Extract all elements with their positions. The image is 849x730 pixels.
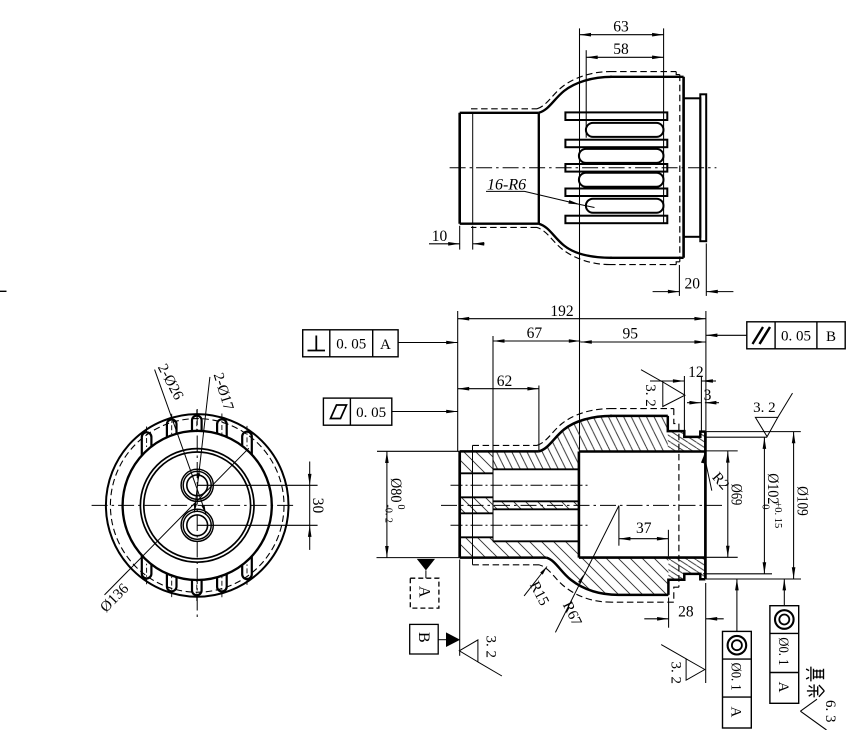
top view: groove land bar 1 — [565, 112, 667, 120]
svg-text:0: 0 — [395, 505, 406, 510]
top view: blank outline dashed left top — [471, 108, 537, 110]
top view: horizontal centerline — [450, 167, 717, 169]
note 其余 characters — [806, 667, 824, 698]
front view: rim slot top 1 — [142, 432, 152, 455]
svg-text:Ø0. 1: Ø0. 1 — [775, 637, 791, 665]
top view: cylinder inner step line at 10mm — [472, 113, 474, 224]
svg-text:37: 37 — [636, 520, 652, 537]
svg-text:B: B — [415, 632, 432, 643]
concentricity frame 2 leader — [783, 579, 785, 606]
svg-text:6. 3: 6. 3 — [822, 700, 838, 723]
top view: cylinder top line — [460, 112, 539, 114]
concentricity frame 1 leader — [736, 579, 738, 632]
dimension Ø102 line — [763, 437, 765, 573]
section: hole counterbore step line (also ext of dim 67) — [492, 336, 494, 541]
section hatch: upper body steep — [493, 416, 668, 469]
svg-text:10: 10 — [432, 228, 448, 245]
dimension Ø80 extension lines — [377, 450, 460, 452]
section: blank outline dashed left bottom — [473, 564, 540, 566]
concentricity frame 1 symbol — [728, 636, 747, 655]
parallelism symbol — [753, 327, 764, 344]
section: bore cavity bottom line — [579, 556, 706, 559]
dimension 30 extension lines — [197, 484, 317, 486]
section: upper step profile — [668, 416, 706, 437]
front view: horizontal centerline — [92, 504, 297, 506]
section hatch: left wall upper band 45deg — [460, 451, 493, 473]
top view: body right face — [682, 77, 685, 258]
dimension Ø80 text with tolerance — [382, 478, 406, 523]
svg-text:+0. 15: +0. 15 — [772, 501, 783, 528]
front view: hub face circle outer — [140, 449, 254, 563]
dimension 63 extension line right — [663, 28, 665, 223]
front view: rim slot top 2 — [167, 420, 177, 438]
dimension 37 line — [619, 538, 669, 540]
concentricity frame 1 datum — [728, 707, 744, 718]
dimension 12 extension lines — [683, 376, 685, 431]
front view: rim slot top 5 — [242, 432, 252, 455]
svg-text:Ø69: Ø69 — [727, 484, 744, 506]
top view: blank outline dashed lower S — [537, 227, 610, 264]
top view: blank outline dashed corner step bottom — [676, 262, 680, 265]
front view: vertical centerline — [196, 409, 198, 619]
top view: groove capsule 3 — [579, 173, 664, 187]
datum B letter — [415, 632, 432, 643]
section hatch: upper flange strip gentle — [668, 431, 706, 451]
svg-text:0. 05: 0. 05 — [781, 328, 811, 344]
svg-text:0: 0 — [760, 504, 771, 509]
top view: cylinder bottom line — [460, 223, 539, 225]
dimension 10 line and arrows — [429, 243, 460, 245]
section: upper hole Ø26 bottom — [493, 500, 579, 502]
svg-text:Ø102: Ø102 — [764, 473, 781, 504]
svg-text:30: 30 — [309, 498, 326, 514]
section: body bottom edge — [619, 594, 669, 597]
svg-text:3. 2: 3. 2 — [483, 636, 499, 659]
top view: end plate rectangle — [700, 94, 706, 241]
svg-text:20: 20 — [685, 276, 701, 293]
datum A letter — [416, 586, 433, 598]
svg-text:0. 05: 0. 05 — [336, 336, 366, 352]
top view: blank outline dashed upper S — [537, 72, 610, 109]
datum extension line below left face — [459, 560, 461, 656]
leader 2-Ø17 line — [194, 377, 210, 513]
front view: upper hole Ø26 inner circle — [183, 471, 211, 499]
section: right face — [704, 432, 707, 580]
datum A stem — [425, 570, 427, 578]
flatness frame box — [323, 398, 391, 425]
front view: rim slot bottom 2 — [167, 574, 177, 592]
flatness leader — [392, 411, 458, 413]
dimension 12 right arrow — [701, 379, 713, 383]
section: blank outline dashed upper S — [537, 409, 610, 446]
dimension 192 extension line left — [457, 311, 459, 451]
svg-text:95: 95 — [622, 326, 638, 343]
top view: blank outline dashed corner step — [676, 72, 680, 75]
dimension 95 line — [580, 341, 706, 343]
dimension 37 extension lines — [618, 506, 620, 546]
top view: groove land bar 4 — [565, 189, 667, 197]
front view: rim slot bottom 4 — [217, 574, 227, 592]
leader R2 — [704, 455, 712, 490]
leader R67 — [555, 506, 619, 633]
dimension 63 extension line left (shared with section cavity wall) — [579, 28, 581, 451]
svg-text:3. 2: 3. 2 — [753, 400, 776, 416]
svg-text:28: 28 — [678, 603, 694, 620]
front view: blank outline dashed circle — [110, 419, 284, 593]
note roughness symbol — [800, 699, 817, 711]
dimension 67 line — [493, 340, 580, 342]
section: blank outline dashed upper corner step — [674, 409, 679, 424]
svg-text:0. 05: 0. 05 — [356, 405, 386, 421]
perpendicularity symbol — [315, 336, 317, 351]
svg-text:A: A — [728, 707, 744, 718]
top view: body top edge — [610, 76, 684, 78]
section: lower hole Ø17 bottom — [460, 536, 493, 538]
dimension 30 line and arrows — [309, 462, 311, 550]
section: blank outline dashed top — [610, 408, 674, 410]
front view: lower hole Ø26 outer circle — [181, 509, 213, 541]
section hatch: web strip between bores 45deg — [493, 501, 579, 509]
section: main centerline — [441, 504, 722, 506]
dimension Ø109 extension lines — [705, 431, 800, 433]
top view: blank outline dashed left bottom — [471, 226, 537, 228]
front view: rim slot top 4 — [217, 419, 227, 437]
top view: groove land bar 2 — [565, 140, 667, 148]
section hatch: lower flange strip gentle — [668, 558, 705, 580]
dimension Ø109 text — [793, 486, 810, 516]
section hatch: left wall middle band 45deg — [460, 497, 493, 513]
top view: cylinder right step edge — [538, 113, 540, 224]
svg-text:192: 192 — [550, 303, 573, 320]
svg-text:B: B — [826, 329, 836, 345]
svg-text:Ø0. 1: Ø0. 1 — [728, 663, 744, 691]
front view: hub face circle inner — [144, 452, 251, 559]
dimension Ø109 line — [793, 432, 795, 579]
svg-text:A: A — [380, 337, 391, 353]
surface finish 3.2 at left face (points left) — [459, 640, 478, 662]
datum B stem — [438, 639, 446, 641]
section: blank outline dashed lower corner step — [674, 587, 679, 602]
concentricity frame 1 value — [728, 663, 744, 691]
top view: body bottom edge — [610, 257, 684, 259]
dimension 192 extension line right (shared 95/20) — [705, 311, 707, 431]
dimension Ø69 text — [727, 484, 744, 506]
top view: groove capsule 1 — [586, 123, 664, 137]
front view: outer circle — [106, 414, 289, 597]
datum B box — [410, 624, 439, 654]
front view: rim slot bottom 1 — [142, 555, 152, 578]
section: blank outline dashed left top — [473, 444, 538, 446]
dimension 62 line — [458, 388, 539, 390]
section hatch: lower body 45deg — [493, 541, 669, 595]
parallelism leader — [706, 334, 747, 336]
dimension 63 line — [580, 34, 664, 36]
concentricity frame 2 symbol — [775, 610, 794, 629]
section: lower hole centerline — [451, 524, 589, 526]
datum B filled triangle — [446, 632, 460, 647]
datum A dashed box — [410, 578, 439, 608]
section: blank outline dashed right side — [678, 424, 680, 588]
section: lower step profile — [668, 574, 705, 595]
svg-text:12: 12 — [688, 364, 704, 381]
section: upper hole Ø17 top — [460, 472, 493, 474]
section: cylinder top surface — [460, 450, 539, 453]
concentricity frame 2 datum — [775, 682, 791, 693]
concentricity frame 1 box — [723, 631, 752, 728]
top view: small cylinder left face — [458, 113, 461, 224]
dimension 28 line and arrows — [644, 618, 668, 620]
dimension Ø102 text with tolerance — [760, 473, 784, 528]
section: bore cavity left wall — [578, 452, 581, 558]
leader 2-Ø26 line — [155, 370, 206, 514]
concentricity frame 2 value — [775, 637, 791, 665]
front view: upper hole Ø26 outer circle — [181, 469, 213, 501]
svg-text:62: 62 — [497, 373, 513, 390]
dimension Ø102 extension lines — [706, 436, 767, 438]
dimension Ø80 line — [386, 452, 388, 558]
front view: lower hole Ø17 circle — [187, 515, 208, 536]
top view: flange rectangle — [684, 98, 701, 237]
front view: upper hole Ø17 circle — [187, 475, 208, 496]
concentricity frame 2 box — [770, 606, 799, 704]
section: blank face line — [472, 445, 474, 564]
section: lower hole Ø26 bottom — [493, 540, 579, 542]
front view: rim slot bottom 3 — [192, 580, 202, 595]
dimension 28 extension lines — [668, 598, 670, 628]
dimension 12 line and arrows — [650, 380, 684, 382]
left border tick — [0, 290, 7, 292]
svg-text:67: 67 — [527, 325, 543, 342]
section: upper hole Ø17 bottom — [460, 496, 493, 498]
section: blank outline dashed bottom — [612, 601, 674, 603]
dimension 62 extension line right — [538, 386, 540, 452]
front view: rim slot top 3 — [192, 416, 202, 431]
section: upper hole centerline — [451, 484, 589, 486]
section: lower hole Ø26 top — [493, 508, 579, 510]
label 16-R6 underline and leader — [486, 190, 525, 192]
dimension 58 line — [586, 56, 663, 58]
svg-text:3: 3 — [704, 387, 712, 404]
front view: rim slot bottom 5 — [242, 556, 252, 579]
top view: blank outline dashed right side — [679, 75, 681, 262]
top view: blank outline dashed bottom — [610, 264, 676, 266]
section: bore cavity top line — [579, 450, 706, 453]
dimension 10 extension lines — [459, 226, 461, 250]
top view: lower S-curve transition — [539, 224, 612, 258]
section: lower S-curve — [546, 558, 618, 595]
svg-text:3. 2: 3. 2 — [668, 662, 684, 685]
svg-text:A: A — [775, 682, 791, 693]
surface finish 3.2 on Ø102 extension (points down) — [755, 417, 777, 436]
svg-text:63: 63 — [613, 18, 629, 35]
note 6.3 value — [822, 700, 838, 723]
svg-text:3. 2: 3. 2 — [642, 384, 658, 407]
section hatch: left wall lower band 45deg — [460, 537, 493, 557]
flatness symbol — [331, 405, 347, 419]
parallelism frame box — [747, 322, 845, 349]
section: body top edge — [610, 415, 668, 418]
surface finish 3.2 at upper step (points right) — [663, 382, 685, 407]
top view: groove capsule 4 — [586, 199, 664, 213]
datum A filled triangle — [417, 559, 435, 571]
top view: groove capsule 2 — [579, 149, 664, 163]
leader R15 — [524, 567, 547, 596]
svg-text:-0. 2: -0. 2 — [382, 505, 393, 523]
section: blank outline dashed lower S — [540, 565, 613, 602]
svg-text:Ø109: Ø109 — [793, 486, 810, 516]
section: upper hole Ø26 top — [493, 468, 579, 470]
front view: lower hole Ø26 inner circle — [183, 511, 211, 539]
dimension 3 line and arrows — [687, 402, 701, 404]
dimension 20 line and arrows — [653, 291, 680, 293]
front view: slot root circle — [123, 431, 272, 580]
svg-text:A: A — [416, 586, 433, 598]
svg-text:58: 58 — [613, 41, 629, 58]
svg-text:Ø80: Ø80 — [387, 478, 404, 503]
top view: groove land bar 3 — [565, 164, 667, 172]
leader Ø136 line — [105, 448, 249, 595]
dimension 20 extension lines — [678, 265, 680, 296]
perpendicularity leader — [398, 342, 458, 344]
dimension 58 extension line left — [585, 50, 587, 138]
top view: blank outline dashed top — [610, 71, 676, 73]
dimension 192 line — [458, 318, 706, 320]
perpendicularity frame box — [303, 330, 398, 357]
dimension Ø69 line — [727, 451, 729, 557]
top view: upper S-curve transition — [539, 77, 612, 113]
dimension Ø69 extension lines — [706, 450, 738, 452]
section: upper S-curve — [539, 416, 612, 452]
surface finish 3.2 at bottom right face (points right) — [686, 659, 705, 680]
section: lower hole Ø17 top — [460, 512, 493, 514]
top view: groove land bar 5 — [565, 216, 667, 224]
section: left face — [458, 451, 461, 557]
section: cylinder bottom surface — [460, 556, 547, 559]
